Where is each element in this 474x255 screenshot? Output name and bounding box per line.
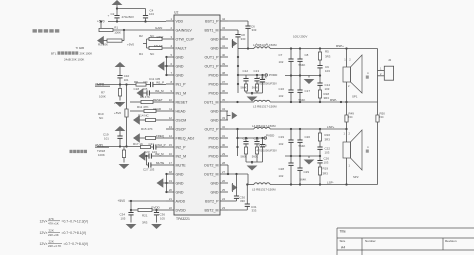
svg-text:R21: R21 [142,213,148,217]
svg-text:OTW: OTW [157,35,164,39]
connector J2 [384,66,393,80]
inductor L5 RB1317-150M [254,183,270,185]
wire J2 pin2 down to RSP- loop [377,71,379,103]
capacitor C6 333 [245,26,250,28]
svg-text:4700/1000UF35V: 4700/1000UF35V [257,82,278,86]
svg-text:470u/50V: 470u/50V [122,15,134,19]
wire AMPR to R10 [126,85,128,110]
junction C31/LSP- [246,183,248,185]
junction [227,173,229,175]
wire GND pins 42-41 tie [232,39,234,48]
pin 2 GAIN/SLV [166,26,192,32]
wire PVDD to ECB [262,138,264,145]
svg-text:22: 22 [169,206,173,210]
capacitor C24 [243,142,248,144]
junction [119,83,121,85]
ground arrow below C36 [151,224,162,229]
resistor R18 3R3 [318,90,321,98]
svg-text:OTW_CLIP: OTW_CLIP [176,37,195,41]
pin 11 HEAD [166,107,186,113]
wire C19f to GND rail [290,142,292,156]
svg-text:VDD: VDD [176,19,184,23]
capacitor C16 103 [288,90,293,92]
wire bleed to tie ch2 [256,154,258,162]
junction [165,191,167,193]
svg-text:PVDD: PVDD [209,73,219,77]
capacitor C11 105 [151,82,153,87]
wire SP1 top pin [346,49,348,68]
wire top supply to C4 [117,8,146,10]
svg-text:105: 105 [160,216,165,220]
junction [256,137,258,139]
svg-text:C12: C12 [243,69,249,73]
pin 10 RESET [166,98,188,104]
svg-text:FAULT: FAULT [176,46,188,50]
pin 27 OUT2_M [204,170,228,176]
pin 43 BST1_M [205,26,228,32]
capacitor C27 103 [149,162,151,167]
inductor L2 RB1317-150M [254,47,270,49]
resistor R2 NC [149,37,162,40]
svg-text:+5V0: +5V0 [114,101,121,105]
wire OUT2_P to L4 [228,128,254,130]
svg-text:J2: J2 [388,58,392,62]
svg-text:100K: 100K [99,94,106,98]
wire R17 to C21 [151,146,154,148]
wire TW18 to ground [123,158,125,163]
junction [237,56,239,58]
wire ECB to tie [262,147,264,162]
wire AMPL to TW18 [123,147,125,151]
wire C2 to +5V0 rail [116,18,118,22]
svg-text:C20: C20 [305,135,311,139]
wire C12 to R bleed [245,81,247,84]
wire R4 to pin4 [162,47,166,49]
wire +5V0 to pin21 AVDD [129,200,167,202]
capacitor C36 105 [154,213,159,215]
svg-text:IN2_M: IN2_M [176,154,187,158]
capacitor C14 103 [317,83,322,85]
wire pin44 BST1_P [228,20,248,22]
capacitor C34 105 [128,213,133,215]
wire GND pins 18-20 tie [166,174,168,192]
port arrow IN1_M input [137,88,144,97]
resistor 560K bleed ch2a [244,147,247,154]
capacitor C19 102 film [288,140,293,142]
svg-text:42: 42 [222,35,226,39]
svg-text:12V×: 12V× [40,231,48,235]
wire C25 to bleed [256,144,258,147]
svg-text:47K: 47K [49,217,54,221]
wire PVDD to ECA [262,75,264,80]
wire pin43 BST1_M [228,29,238,31]
svg-text:GND: GND [211,118,219,122]
capacitor C8 330 [235,35,240,37]
junction [299,183,301,185]
pin 22 DVDD [166,206,186,212]
wire R14 to pin12 [156,119,167,121]
junction [251,92,253,94]
wire RSP+ to R5z [319,49,321,53]
wire +5V0 stub [143,43,147,45]
wire +5V0 to R5 [130,101,141,103]
power arrow AMPL [115,126,126,131]
svg-text:GND: GND [211,46,219,50]
capacitor C23 103 [149,153,151,158]
junction GVDD row left [130,209,132,211]
wire LSP+ to C19f [290,129,292,140]
wire LSP+ run [270,128,347,130]
pin 5 GND [166,53,184,59]
junction [290,47,292,49]
junction AVDD/C34 [130,200,132,202]
junction [256,74,258,76]
wire C20 to GND rail [299,142,301,156]
svg-text:R3 20K: R3 20K [98,43,108,47]
svg-text:TI 9dB: TI 9dB [76,46,85,50]
svg-text:41: 41 [222,44,226,48]
svg-text:C25: C25 [254,136,260,140]
resistor R7 100K [118,89,121,97]
svg-text:PVDD: PVDD [209,91,219,95]
junction [319,47,321,49]
wire C14 to R18 [319,85,321,90]
pin 14 FREQ_ADJ [166,134,194,140]
svg-text:GND: GND [211,181,219,185]
svg-text:R1: R1 [114,25,118,29]
svg-text:330: 330 [240,199,245,203]
capacitor C19 101 [117,136,122,138]
capacitor C31 333 [245,204,250,206]
svg-text:RESET: RESET [176,100,189,104]
svg-text:R16: R16 [325,133,331,137]
pin 8 IN1_P [166,80,186,86]
svg-text:13: 13 [169,125,173,129]
wire arrow to C23 [145,155,149,157]
wire to C27 [147,164,149,166]
svg-text:36: 36 [222,89,226,93]
wire SP2 top pin [346,129,348,142]
svg-text:11: 11 [169,107,172,111]
wire +5V0 to R11 [130,110,144,112]
svg-text:12V×: 12V× [40,220,48,224]
wire R50 top [377,102,379,115]
svg-text:C21: C21 [149,142,155,146]
svg-text:103: 103 [325,69,330,73]
svg-text:GVDD: GVDD [151,205,161,209]
pin 30 PVDD [209,143,229,149]
junction [319,128,321,130]
svg-text:PVDD: PVDD [209,145,219,149]
svg-text:OUT2_M: OUT2_M [204,163,219,167]
speaker SP1 [343,55,362,93]
pin 20 GND [166,188,184,194]
junction [237,74,239,76]
ground arrow pins 42/41 [232,40,238,48]
svg-text:37: 37 [222,80,226,84]
ground arrow pins 34-33 [232,112,238,120]
svg-text:DVDD: DVDD [176,208,187,212]
wire rail to arrow [308,76,310,78]
svg-text:C23: C23 [144,150,150,154]
junction C6/OUT1 [247,47,249,49]
svg-text:564K: 564K [299,63,306,67]
junction [125,83,127,85]
ground arrow below C34 [126,224,137,229]
svg-text:PVDD: PVDD [209,136,219,140]
wire OUT1_M to L3 [228,101,254,103]
ground arrow rail ch2 [304,160,315,165]
wire bleed to tie [245,91,247,93]
capacitor ECA 4700/1000uF35V [260,80,265,82]
svg-text:R17 1K: R17 1K [133,142,143,146]
svg-text:SP2: SP2 [353,175,359,179]
svg-text:101: 101 [124,78,129,82]
svg-text:C29: C29 [304,170,310,174]
svg-text:103: 103 [325,151,330,155]
wire AMPR rail [97,84,136,86]
svg-text:22K+3K: 22K+3K [48,233,59,237]
svg-text:GND: GND [211,190,219,194]
junction [345,101,347,103]
svg-text:SP1: SP1 [352,95,358,99]
wire C13 to R bleed [256,81,258,84]
wire C36 to ground [156,215,158,223]
junction [299,47,301,49]
svg-text:24: 24 [222,197,226,201]
wire pin23 BST2_M [228,209,247,211]
wire PVDD rail ch2 [238,137,265,139]
svg-text:100K: 100K [98,153,105,157]
pin 23 BST2_M [205,206,228,212]
svg-text:12V×: 12V× [40,242,48,246]
svg-text:20K 100K: 20K 100K [80,52,93,56]
wire down to C34 node [130,201,132,213]
junction [144,20,146,22]
pin 31 PVDD [209,134,229,140]
pin 3 OTW_CLIP [166,35,194,41]
svg-text:C16: C16 [279,87,285,91]
svg-text:IN1_M: IN1_M [176,91,187,95]
wire R2 to pin3 [162,38,166,40]
svg-text:R15 47K: R15 47K [141,127,153,131]
svg-text:RSP+: RSP+ [336,44,344,48]
note dual-channel-mode (CJK) [33,29,60,32]
wire C22 to GND rail [319,149,321,156]
junction [245,137,247,139]
wire C21 to pin15 [156,146,166,148]
resistor R5 47K [141,100,153,103]
junction [261,137,263,139]
port arrow IN2_M [139,151,146,160]
svg-text:Size: Size [340,239,346,243]
power arrow AMPR [115,62,126,67]
wire GND rail to C26 [319,156,321,161]
power flag PVDD ch1 [265,74,267,76]
svg-text:14: 14 [169,134,173,138]
svg-text:C2: C2 [111,12,115,16]
wire SP2 bottom pin [346,158,348,185]
svg-text:HEAD: HEAD [176,109,186,113]
svg-text:FREQ_ADJ: FREQ_ADJ [176,136,195,140]
junction [165,65,167,67]
wire OUT2_M to corner [228,173,248,175]
ground arrow below TW18 [119,164,130,169]
wire arrow to tie [164,65,167,67]
svg-text:L3 RB1317-150M: L3 RB1317-150M [253,105,277,109]
pin 35 OUT1_M [204,98,228,104]
svg-text:A4: A4 [341,245,345,249]
svg-text:L5 RB1317-150M: L5 RB1317-150M [252,187,276,191]
capacitor C17 564K [297,90,302,92]
wire C4 to +5V0 rail [145,18,147,22]
wire down to C27 [146,156,148,165]
svg-text:C19: C19 [279,135,285,139]
wire OUT2_M tie [227,165,229,174]
junction [236,146,238,148]
svg-text:104: 104 [149,12,154,16]
svg-text:GND: GND [176,172,184,176]
pin 21 AVDD [166,197,186,203]
wire to C13 [256,75,258,79]
svg-text:105: 105 [121,216,126,220]
svg-text:IN1_P: IN1_P [176,82,187,86]
wire pin24 BST2_P [228,200,237,202]
capacitor C28 102 [288,163,293,165]
wire R50 bottom to LSP- loop [377,122,379,185]
junction [290,183,292,185]
ground arrow rail ch1 [304,79,315,84]
svg-text:R5: R5 [325,50,329,54]
svg-text:GAIN/SLV: GAIN/SLV [176,28,193,32]
wire tie ch1 bleed [246,92,263,94]
junction +5V0/R1 [100,20,102,22]
wire tie to arrow [227,115,231,117]
port arrow FREQ [133,133,140,142]
wire J2 pin1 [378,70,385,72]
svg-text:29: 29 [222,152,226,156]
op-amp U2 TPA3221 body [174,15,220,215]
svg-text:+ ECB: + ECB [259,143,267,147]
wire R16 to C22 [319,141,321,147]
wire C30 to OUT2_M net [236,174,238,196]
junction [236,128,238,130]
pin 34 GND [211,107,229,113]
wire GND pins 34-33 tie [226,111,228,120]
svg-text:TPA3221: TPA3221 [176,217,190,221]
svg-text:GND: GND [176,181,184,185]
svg-text:BST2_M: BST2_M [205,208,219,212]
svg-text:12: 12 [169,116,173,120]
pin 33 GND [211,116,229,122]
svg-text:NC: NC [349,115,353,119]
wire to C24 [245,138,247,142]
junction [125,145,127,147]
pin 44 BST1_P [205,17,228,23]
svg-text:Number: Number [365,239,376,243]
svg-text:39: 39 [222,62,226,66]
junction [237,83,239,85]
svg-text:Revision: Revision [445,239,457,243]
wire C16 to RSP- [290,92,292,102]
capacitor C2 470u/50V [114,16,119,18]
svg-text:GND: GND [176,55,184,59]
svg-text:27: 27 [222,170,226,174]
wire C7 to GND rail [290,61,292,75]
svg-text:OUT1_P: OUT1_P [205,64,220,68]
svg-text:GND: GND [176,73,184,77]
wire +5V0 vertical R2/R4 [146,39,148,48]
svg-text:102: 102 [279,142,284,146]
svg-text:32: 32 [222,125,226,129]
svg-text:IN1_P: IN1_P [156,80,164,84]
svg-text:IN2_M: IN2_M [155,152,164,156]
svg-text:23: 23 [222,206,226,210]
resistor R3 20K [107,39,122,42]
svg-text:U2: U2 [174,10,178,14]
port arrow OSCM [133,115,140,124]
svg-text:R11 47K: R11 47K [137,105,148,109]
svg-text:GND: GND [211,109,219,113]
wire GND rail ch1 [285,75,320,77]
svg-text:22K+4.7K: 22K+4.7K [48,244,61,248]
svg-text:IN2_P: IN2_P [176,145,187,149]
wire RSP+ to C8f [299,49,301,60]
junction [319,101,321,103]
svg-text:19: 19 [169,179,173,183]
svg-text:NC: NC [380,115,384,119]
wire C31 to pin23 [246,206,248,210]
wire C18 to pin9 [149,92,166,94]
junction GAIN/R3 [123,29,125,31]
speaker SP2 [343,130,362,170]
wire R15 to pin14 [156,137,167,139]
wire GND rail to C28 [290,156,292,163]
svg-text:FREQ: FREQ [156,134,165,138]
junction [319,155,321,157]
power flag PVDD ch2 [264,137,266,139]
power +5V0 arrow (top) [112,0,123,5]
junction [290,101,292,103]
wire R10 to AMPL rail [126,117,128,147]
svg-text:Title: Title [340,230,346,234]
svg-text:18: 18 [169,170,173,174]
svg-text:OSCP: OSCP [176,127,187,131]
wire OUT1_P to L2 [238,48,254,50]
svg-text:GND: GND [211,37,219,41]
svg-text:LSP+: LSP+ [327,125,335,129]
junction [290,155,292,157]
capacitor C4 104 [143,16,148,18]
junction on OUT1_M [236,101,238,103]
svg-text:MUTE: MUTE [156,161,164,165]
wire R18 to RSP- [319,98,321,102]
wire RSP+ to speaker/connector [270,48,378,50]
wire GVDD to C36 [156,210,158,213]
wire LSP+ to R16 [319,129,321,133]
wire RSP- run [270,101,378,103]
svg-text:FAULT: FAULT [154,44,163,48]
svg-text:L4 RB1317-150M: L4 RB1317-150M [252,124,276,128]
inductor L3 RB1317-150M [254,100,270,102]
wire C11 to pin8 [153,84,166,86]
pin 29 PVDD [209,152,229,158]
capacitor C22 103 [317,147,322,149]
svg-text:R2: R2 [139,34,143,38]
resistor R15 47K [146,136,156,139]
ground arrow pins 5-7 [158,61,165,70]
svg-text:+5V0: +5V0 [118,199,126,203]
